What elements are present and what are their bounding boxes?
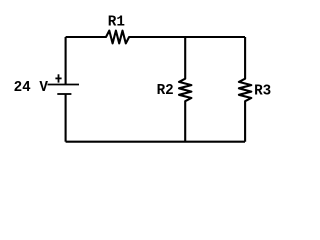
svg-text:24 V: 24 V bbox=[14, 80, 49, 96]
svg-text:R3: R3 bbox=[254, 84, 271, 100]
svg-text:R2: R2 bbox=[157, 83, 174, 99]
svg-text:R1: R1 bbox=[108, 15, 125, 31]
